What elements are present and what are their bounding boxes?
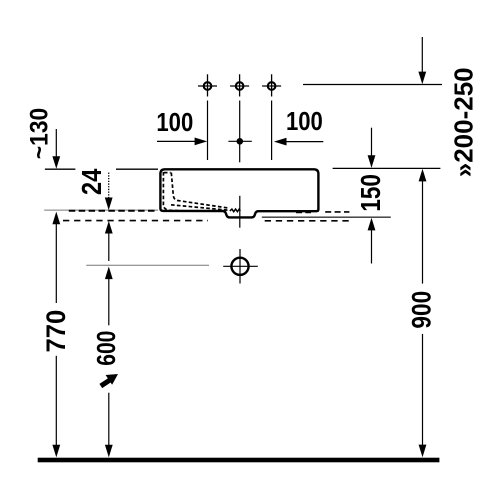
svg-text:100: 100	[156, 108, 193, 137]
svg-text:»200-250: »200-250	[449, 67, 479, 177]
svg-text:600: 600	[93, 331, 122, 366]
svg-text:900: 900	[407, 291, 437, 329]
svg-text:24: 24	[75, 168, 107, 195]
svg-text:770: 770	[40, 310, 71, 353]
svg-text:~130: ~130	[26, 108, 54, 159]
svg-text:150: 150	[356, 174, 387, 212]
svg-text:100: 100	[286, 107, 323, 136]
